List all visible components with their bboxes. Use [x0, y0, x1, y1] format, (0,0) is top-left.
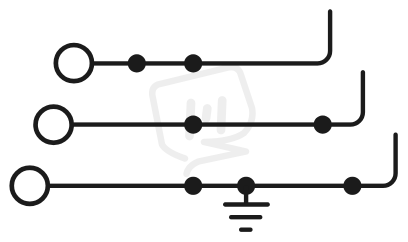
ground bar 3: [241, 227, 250, 231]
watermark logo: [152, 67, 252, 174]
ground bar 2: [231, 215, 260, 219]
junction dot row 1 a: [128, 54, 146, 72]
terminal circle row 1: [56, 45, 92, 81]
wire row 3 with right hook: [50, 135, 396, 186]
ground stem: [244, 186, 248, 205]
junction dot row 3 a: [184, 177, 202, 195]
wire row 1 with right hook: [94, 12, 330, 64]
terminal circle row 2: [36, 107, 72, 143]
terminal circle row 3: [12, 168, 48, 204]
junction dot row 3 c: [343, 177, 361, 195]
junction dot row 3 b (PE): [237, 177, 255, 195]
wire row 2 with right hook: [74, 72, 363, 124]
ground symbol: [225, 186, 268, 230]
ground bar 1: [225, 202, 268, 206]
junction dot row 2 a: [184, 116, 202, 134]
junction dot row 1 b: [184, 54, 202, 72]
junction dot row 2 b: [314, 116, 332, 134]
